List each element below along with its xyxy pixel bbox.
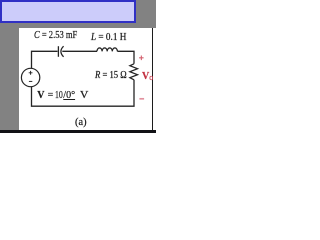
polarity plus (red): [139, 56, 144, 61]
slide gray background left column: [0, 28, 19, 130]
wire right-bottom segment: [32, 80, 135, 106]
lavender title bar: [0, 0, 136, 23]
label C = 2.53 mF: [34, 31, 77, 41]
source minus sign: [29, 80, 32, 82]
resistor R zigzag: [130, 64, 138, 80]
capacitor C1 plate: [57, 46, 59, 57]
figure right frame line: [152, 28, 154, 131]
wire top-left segment: [32, 51, 58, 68]
output voltage Vo (red): [142, 72, 153, 82]
circuit schematic: [0, 0, 156, 133]
label V = 10 angle 0 V (phasor): [0, 91, 156, 101]
capacitor C1 curved plate: [61, 46, 64, 57]
inductor L1 humps: [97, 48, 117, 51]
wire between capacitor and inductor: [62, 50, 97, 52]
label R = 15 ohm: [95, 71, 127, 81]
label L = 0.1 H: [91, 33, 126, 43]
voltage source circle: [21, 68, 39, 86]
caption (a): [75, 118, 87, 128]
wire top-right segment: [117, 51, 134, 64]
bottom black strip: [0, 130, 156, 133]
polarity minus (red): [139, 98, 144, 100]
source plus sign: [29, 71, 33, 82]
slide gray background top band: [0, 0, 156, 28]
